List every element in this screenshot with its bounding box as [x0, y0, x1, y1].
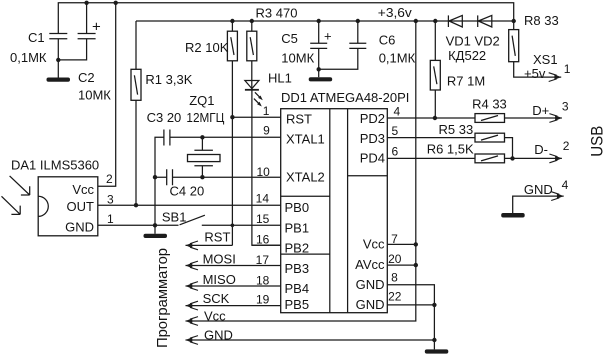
- svg-text:+3,6v: +3,6v: [378, 5, 413, 20]
- svg-text:10МК: 10МК: [78, 88, 111, 103]
- svg-text:2: 2: [106, 172, 113, 186]
- diode VD1: [447, 15, 449, 27]
- svg-text:PB3: PB3: [285, 261, 310, 276]
- node rail R2: [230, 19, 234, 23]
- svg-text:R8 33: R8 33: [524, 13, 559, 28]
- svg-text:20: 20: [388, 252, 402, 266]
- capacitor C2: [86, 3, 88, 34]
- svg-text:PD2: PD2: [360, 111, 385, 126]
- wire Vcc programmer: [186, 21, 416, 321]
- svg-text:C6: C6: [379, 33, 396, 48]
- svg-text:XTAL2: XTAL2: [286, 170, 325, 185]
- svg-text:RST: RST: [204, 230, 230, 245]
- svg-text:DA1 ILMS5360: DA1 ILMS5360: [11, 158, 99, 173]
- svg-text:12МГЦ: 12МГЦ: [186, 110, 224, 125]
- svg-text:GND: GND: [524, 182, 553, 197]
- LED HL1: [245, 81, 259, 89]
- resistor R5 33: [475, 133, 505, 142]
- svg-text:Vcc: Vcc: [363, 236, 385, 251]
- svg-text:6: 6: [392, 145, 399, 159]
- node Vcc pin7 junction: [414, 242, 418, 246]
- svg-text:PB4: PB4: [285, 281, 310, 296]
- wire XTAL1: [170, 136, 281, 138]
- svg-text:0,1МК: 0,1МК: [10, 50, 47, 65]
- svg-text:PD3: PD3: [360, 131, 385, 146]
- wire pin16 PB2: [252, 244, 281, 246]
- wire MISO PB4: [186, 285, 281, 287]
- wire AVcc pin 20: [387, 264, 416, 266]
- svg-text:10: 10: [256, 165, 270, 179]
- node rail Vcc vertical: [414, 19, 418, 23]
- svg-text:HL1: HL1: [268, 71, 292, 86]
- ground bottom right: [425, 349, 449, 353]
- svg-text:SB1: SB1: [162, 209, 187, 224]
- svg-text:14: 14: [256, 192, 270, 206]
- svg-text:C3 20: C3 20: [147, 110, 182, 125]
- wire Vcc pin 7: [387, 243, 416, 245]
- capacitor C4: [155, 169, 173, 185]
- node XTAL2 crystal: [200, 175, 204, 179]
- svg-text:D-: D-: [534, 142, 548, 157]
- node AVcc pin20 junction: [414, 263, 418, 267]
- svg-text:+: +: [92, 18, 101, 35]
- IR arrow 1: [10, 176, 30, 195]
- svg-text:+: +: [324, 29, 332, 44]
- node R7 PD2 junction: [433, 116, 437, 120]
- wire D+ arrow pin 3: [505, 117, 562, 119]
- svg-text:GND: GND: [65, 219, 94, 234]
- svg-text:1: 1: [564, 62, 571, 76]
- svg-text:PB1: PB1: [285, 221, 310, 236]
- wire PD2 pin 4: [387, 117, 475, 119]
- svg-text:XS1: XS1: [533, 52, 558, 67]
- node rail C5: [317, 19, 321, 23]
- svg-text:3: 3: [562, 99, 569, 113]
- svg-text:ZQ1: ZQ1: [189, 93, 214, 108]
- svg-text:1: 1: [263, 104, 270, 118]
- svg-text:КД522: КД522: [448, 48, 486, 63]
- svg-text:R1 3,3K: R1 3,3K: [145, 72, 192, 87]
- svg-text:SCK: SCK: [203, 291, 230, 306]
- node GND junction: [153, 223, 157, 227]
- node top rail DA1 Vcc: [114, 1, 118, 5]
- node SB1 PB1 junction: [231, 224, 235, 228]
- svg-text:MOSI: MOSI: [203, 252, 236, 267]
- wire OUT to PB0: [98, 204, 281, 206]
- node R1 OUT junction: [134, 203, 138, 207]
- svg-text:18: 18: [256, 273, 270, 287]
- svg-text:Vcc: Vcc: [204, 309, 226, 324]
- wire D- arrow pin 2: [505, 157, 562, 159]
- wire pin1 RST: [232, 116, 280, 118]
- resistor R8 33: [513, 21, 515, 30]
- svg-text:VD1 VD2: VD1 VD2: [446, 34, 500, 49]
- capacitor C1: [49, 33, 67, 35]
- IR arrow 2: [2, 196, 21, 214]
- node rail C6: [356, 19, 360, 23]
- svg-text:DD1 ATMEGA48-20PI: DD1 ATMEGA48-20PI: [281, 90, 409, 105]
- svg-text:GND: GND: [356, 277, 385, 292]
- ground C5 C6: [309, 77, 333, 81]
- svg-text:16: 16: [256, 232, 270, 246]
- svg-text:C4 20: C4 20: [170, 184, 205, 199]
- svg-text:PB2: PB2: [285, 241, 310, 256]
- node RST pin1 junction: [230, 115, 234, 119]
- svg-text:R2 10K: R2 10K: [185, 40, 229, 55]
- wire GND pin 22: [387, 304, 434, 306]
- svg-text:R4 33: R4 33: [472, 97, 507, 112]
- resistor R1 3,3K: [135, 21, 137, 69]
- svg-text:PB5: PB5: [285, 297, 310, 312]
- wire DA1 Vcc pin2: [98, 3, 116, 187]
- node C5 C6 ground junction: [317, 67, 321, 71]
- svg-text:R5 33: R5 33: [439, 122, 474, 137]
- svg-text:8: 8: [391, 271, 398, 285]
- node GND rail junction: [432, 338, 436, 342]
- capacitor C6: [357, 21, 359, 43]
- svg-text:5: 5: [392, 124, 399, 138]
- ground DA1: [154, 225, 156, 234]
- resistor R6 1,5K: [475, 154, 505, 163]
- wire GND usb pin 4: [513, 196, 564, 213]
- svg-text:D+: D+: [532, 103, 549, 118]
- svg-text:C1: C1: [28, 30, 45, 45]
- svg-text:GND: GND: [356, 297, 385, 312]
- wire GND programmer: [186, 339, 435, 341]
- svg-text:4: 4: [562, 178, 569, 192]
- svg-text:PD4: PD4: [360, 151, 385, 166]
- ground usb GND: [501, 213, 525, 218]
- wire MOSI PB3: [186, 265, 281, 267]
- svg-text:Программатор: Программатор: [154, 248, 171, 348]
- svg-text:3: 3: [107, 192, 114, 206]
- LED emission arrow 1: [255, 92, 260, 97]
- wire SCK PB5: [186, 305, 281, 307]
- wire RST programmer: [186, 244, 233, 246]
- svg-text:+5v: +5v: [524, 66, 546, 81]
- diode VD2: [477, 15, 479, 27]
- svg-text:R7 1M: R7 1M: [447, 73, 485, 88]
- svg-text:19: 19: [256, 292, 270, 306]
- resistor R4 33: [475, 114, 505, 123]
- svg-text:R6 1,5K: R6 1,5K: [427, 142, 474, 157]
- node XTAL1 crystal: [200, 135, 204, 139]
- svg-text:0,1МК: 0,1МК: [379, 51, 416, 66]
- wire XS1 +5v pin 1: [514, 62, 562, 77]
- wire top +5v rail: [58, 3, 513, 34]
- svg-text:22: 22: [388, 289, 402, 303]
- node R5 R6 D- junction: [510, 156, 514, 160]
- wire PD3 pin 5: [387, 137, 475, 139]
- svg-text:XTAL1: XTAL1: [286, 131, 325, 146]
- svg-text:17: 17: [256, 253, 270, 267]
- svg-text:10МК: 10МК: [281, 51, 314, 66]
- svg-text:AVcc: AVcc: [355, 257, 385, 272]
- capacitor C3: [155, 130, 170, 178]
- svg-text:1: 1: [107, 212, 114, 226]
- svg-text:PB0: PB0: [285, 200, 310, 215]
- capacitor C5: [318, 21, 320, 43]
- svg-text:9: 9: [263, 124, 270, 138]
- svg-text:15: 15: [256, 212, 270, 226]
- svg-text:C5: C5: [281, 31, 298, 46]
- wire C3 C4 to ground: [154, 177, 156, 225]
- svg-text:RST: RST: [286, 111, 312, 126]
- op-amp DD1 ATMEGA48-20PI box: [281, 109, 388, 313]
- resistor R7 1M: [434, 21, 436, 60]
- svg-text:2: 2: [563, 139, 570, 153]
- resistor R3 470: [251, 21, 253, 31]
- node GND pin22 junction: [432, 303, 436, 307]
- LED emission arrow 2: [254, 99, 259, 104]
- wire DA1 GND to SB1: [98, 224, 179, 226]
- photodetector DA1 ILMS5360: [38, 177, 98, 236]
- node rail R3: [250, 19, 254, 23]
- svg-text:4: 4: [394, 105, 401, 119]
- wire +3,6v rail: [136, 20, 514, 22]
- svg-text:OUT: OUT: [67, 199, 95, 214]
- svg-text:GND: GND: [204, 328, 233, 343]
- ground C1: [47, 78, 71, 82]
- svg-text:R3 470: R3 470: [256, 6, 298, 21]
- wire GND pin 8: [387, 285, 434, 350]
- wire XTAL2: [173, 176, 281, 178]
- node rail R8 diode junction: [512, 19, 516, 23]
- svg-text:USB: USB: [587, 126, 603, 157]
- svg-text:MISO: MISO: [203, 272, 236, 287]
- node top rail C2: [84, 1, 88, 5]
- svg-text:C2: C2: [78, 70, 95, 85]
- svg-text:Vcc: Vcc: [72, 182, 94, 197]
- resistor R2 10K: [231, 21, 233, 31]
- node C1 C2 junction: [56, 58, 60, 62]
- node C3 C4 common: [153, 175, 157, 179]
- node rail R7: [433, 19, 437, 23]
- wire PD4 pin 6: [387, 157, 475, 159]
